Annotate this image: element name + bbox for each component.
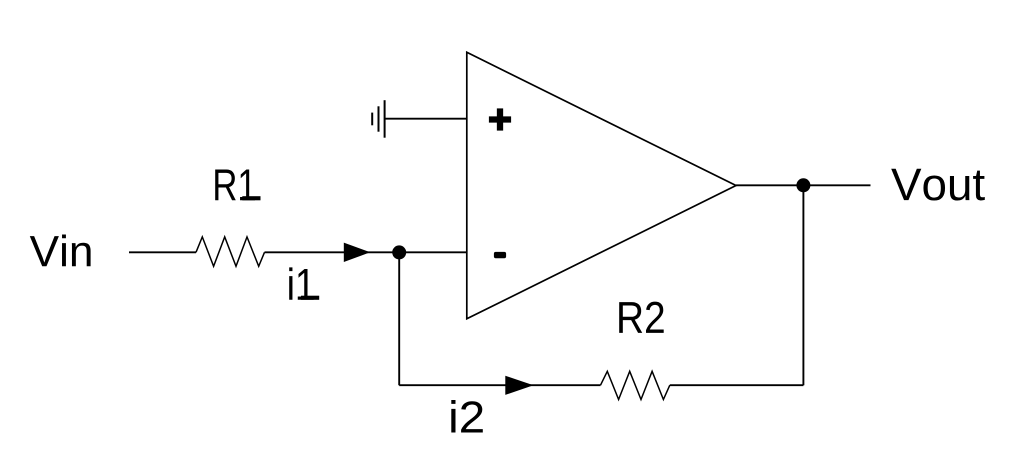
wire feedback bottom right segment (670, 384, 804, 386)
wire ground to non-inverting input (385, 118, 467, 120)
op-amp U1 (467, 52, 736, 319)
node Vin label (30, 235, 91, 267)
ground (372, 100, 384, 138)
node junction dot (inverting input) (392, 245, 406, 259)
node junction dot (output) (796, 178, 810, 192)
wire input from Vin to R1 (129, 251, 196, 253)
current label i1 (289, 267, 314, 299)
current arrow i2 (505, 376, 533, 395)
pin label + (non-inverting input) (489, 108, 511, 130)
current label i2 (451, 400, 483, 432)
current arrow i1 (344, 243, 370, 262)
wire from R1 to inverting input node (265, 251, 467, 253)
wire feedback bottom left segment (399, 384, 600, 386)
wire node to feedback (vertical) (398, 252, 400, 385)
resistor R2 label (619, 302, 664, 333)
resistor R1 (196, 237, 265, 266)
resistor R1 label (215, 170, 255, 201)
resistor R2 (601, 371, 670, 399)
wire output (736, 184, 871, 186)
wire feedback right vertical (802, 185, 804, 385)
pin label - (inverting input) (494, 252, 506, 258)
node Vout label (891, 169, 985, 201)
